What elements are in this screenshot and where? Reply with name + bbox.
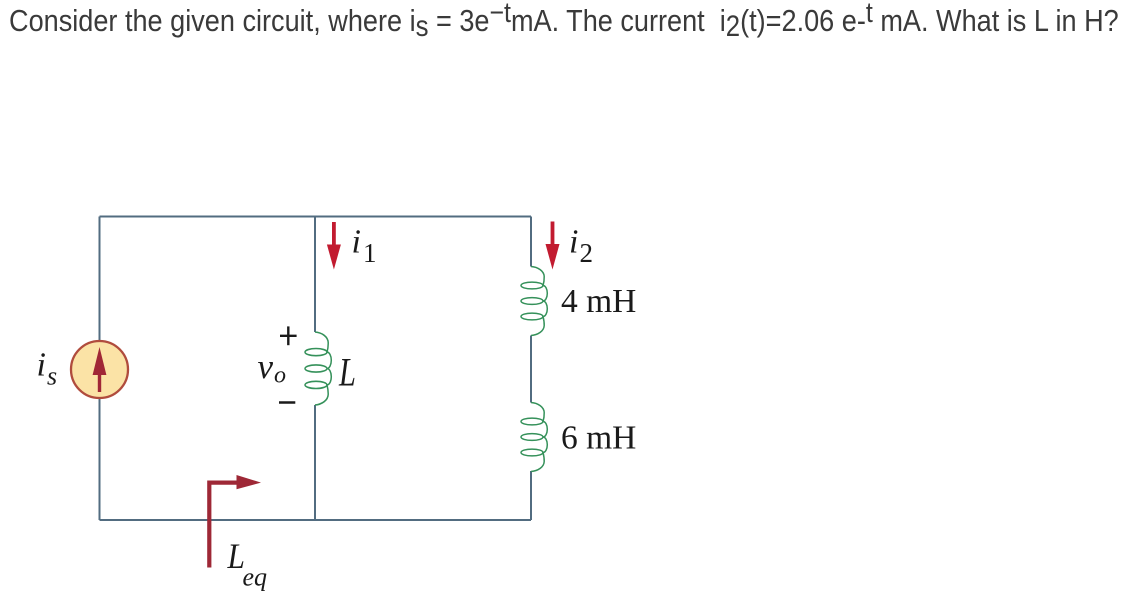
inductor 4mH (right branch upper) <box>521 267 547 336</box>
arrow i1 (current direction, red down) <box>327 222 341 270</box>
wire: middle branch lower <box>314 405 316 520</box>
label + (polarity plus) <box>280 326 297 345</box>
svg-text:2: 2 <box>580 238 594 268</box>
svg-text:i: i <box>569 224 578 261</box>
wire: middle branch upper <box>314 217 316 333</box>
wire: right branch upper <box>530 217 532 267</box>
arrow i2 (current direction, red down) <box>546 222 560 270</box>
wire: top horizontal (node A to node B) <box>100 216 532 218</box>
svg-text:v: v <box>258 347 274 386</box>
wire: bottom horizontal <box>100 519 532 521</box>
svg-text:s: s <box>47 362 57 391</box>
label − (polarity minus) <box>279 401 295 404</box>
wire: right branch lower <box>530 471 532 520</box>
svg-text:o: o <box>274 363 286 389</box>
svg-text:eq: eq <box>243 563 268 592</box>
label i2 <box>569 224 593 269</box>
label i1 <box>352 224 377 269</box>
inductor 6mH (right branch lower) <box>521 403 547 472</box>
label is <box>37 347 58 391</box>
inductor L (middle branch) <box>305 332 331 405</box>
label Leq <box>227 537 267 591</box>
current source is (circle) <box>71 341 128 398</box>
wire: left vertical upper (top node to source) <box>99 217 101 342</box>
title: problem statement <box>9 3 1119 39</box>
wire: right branch between 4mH and 6mH <box>530 336 532 403</box>
svg-text:1: 1 <box>363 238 377 268</box>
label vo <box>258 347 287 389</box>
svg-text:i: i <box>352 224 361 261</box>
wire: left vertical lower (source to bottom node) <box>99 398 101 521</box>
svg-text:i: i <box>37 347 46 384</box>
arrow Leq (equivalent-inductance pointer) <box>209 475 261 568</box>
svg-text:L: L <box>338 349 356 394</box>
svg-text:4 mH: 4 mH <box>561 283 636 320</box>
svg-text:6 mH: 6 mH <box>561 420 636 457</box>
